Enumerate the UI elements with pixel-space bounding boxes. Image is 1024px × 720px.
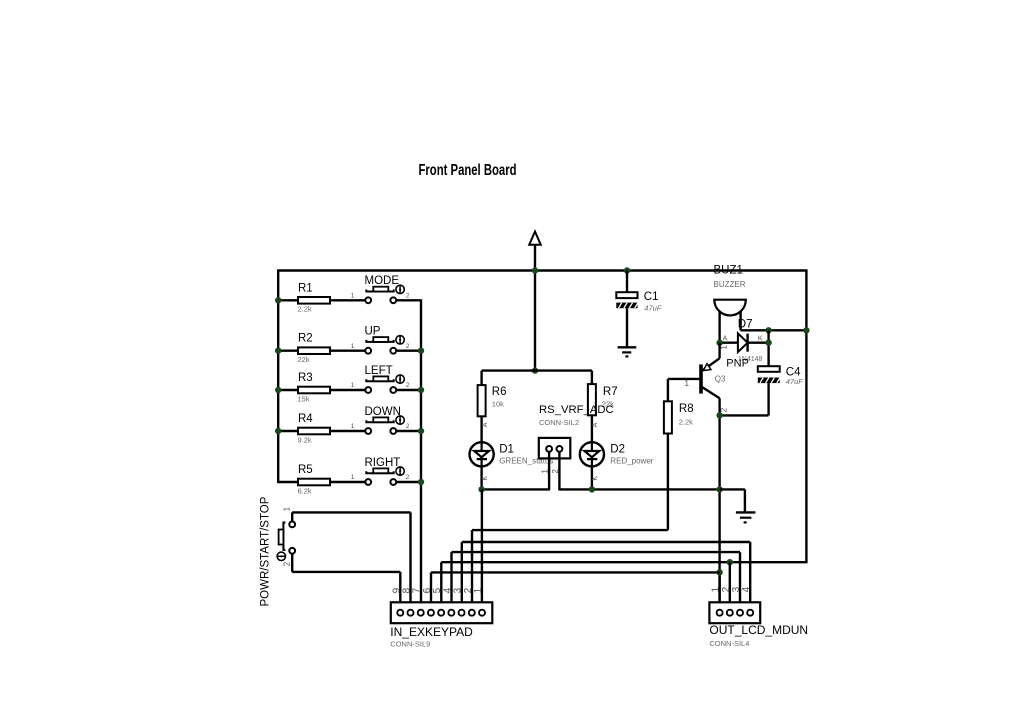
- svg-text:1: 1: [351, 292, 355, 299]
- svg-text:2: 2: [551, 469, 560, 474]
- svg-text:R3: R3: [298, 372, 313, 384]
- svg-text:1: 1: [685, 379, 690, 388]
- svg-text:IN_EXKEYPAD: IN_EXKEYPAD: [390, 625, 473, 639]
- svg-text:2: 2: [282, 561, 291, 566]
- svg-text:RED_power: RED_power: [610, 457, 653, 466]
- svg-text:POWR/START/STOP: POWR/START/STOP: [259, 496, 271, 606]
- svg-text:1: 1: [351, 343, 355, 350]
- svg-text:R2: R2: [298, 333, 313, 345]
- svg-text:6.2k: 6.2k: [298, 486, 312, 495]
- svg-text:K: K: [482, 476, 489, 481]
- svg-text:1: 1: [720, 345, 729, 350]
- svg-text:1: 1: [351, 474, 355, 481]
- svg-text:1: 1: [351, 382, 355, 389]
- svg-text:R5: R5: [298, 464, 313, 476]
- svg-text:C1: C1: [644, 291, 659, 303]
- svg-text:MODE: MODE: [365, 275, 400, 287]
- svg-text:2: 2: [406, 343, 410, 350]
- svg-text:R7: R7: [603, 386, 618, 398]
- svg-text:2.2k: 2.2k: [679, 417, 693, 426]
- svg-text:A: A: [482, 422, 489, 427]
- svg-text:2: 2: [406, 423, 410, 430]
- svg-text:9.2k: 9.2k: [298, 435, 312, 444]
- svg-text:47uF: 47uF: [786, 377, 804, 386]
- svg-text:R6: R6: [492, 386, 507, 398]
- svg-text:DOWN: DOWN: [365, 406, 401, 418]
- svg-text:PNP: PNP: [726, 358, 749, 370]
- svg-text:1: 1: [541, 469, 550, 474]
- svg-text:D2: D2: [610, 444, 625, 456]
- svg-text:D7: D7: [738, 319, 753, 331]
- svg-text:UP: UP: [365, 326, 381, 338]
- svg-text:1: 1: [351, 423, 355, 430]
- svg-text:R4: R4: [298, 413, 313, 425]
- svg-text:K: K: [592, 476, 599, 481]
- svg-text:RIGHT: RIGHT: [365, 457, 401, 469]
- svg-text:15k: 15k: [298, 394, 310, 403]
- svg-text:CONN-SIL2: CONN-SIL2: [539, 418, 579, 427]
- svg-text:RS_VRF_ADC: RS_VRF_ADC: [539, 404, 614, 416]
- svg-text:R8: R8: [679, 403, 694, 415]
- svg-text:2: 2: [406, 474, 410, 481]
- svg-text:Front Panel Board: Front Panel Board: [419, 162, 517, 179]
- svg-text:2.2k: 2.2k: [298, 305, 312, 314]
- svg-text:D1: D1: [499, 444, 514, 456]
- svg-text:2: 2: [406, 382, 410, 389]
- svg-text:K: K: [758, 336, 763, 343]
- svg-text:A: A: [723, 336, 728, 343]
- svg-text:Q3: Q3: [715, 375, 726, 384]
- svg-text:22k: 22k: [298, 355, 310, 364]
- svg-text:LEFT: LEFT: [365, 365, 393, 377]
- svg-text:OUT_LCD_MDUN: OUT_LCD_MDUN: [709, 623, 808, 637]
- svg-text:47uF: 47uF: [644, 304, 662, 313]
- svg-text:R1: R1: [298, 282, 313, 294]
- svg-text:1: 1: [473, 587, 484, 593]
- svg-text:4: 4: [741, 586, 752, 592]
- svg-text:BUZ1: BUZ1: [714, 264, 743, 276]
- svg-text:CONN-SIL9: CONN-SIL9: [390, 639, 430, 648]
- svg-text:BUZZER: BUZZER: [714, 280, 746, 289]
- svg-text:A: A: [592, 422, 599, 427]
- svg-text:CONN-SIL4: CONN-SIL4: [709, 639, 749, 648]
- svg-text:10k: 10k: [492, 400, 504, 409]
- svg-text:2: 2: [406, 292, 410, 299]
- svg-text:1: 1: [283, 506, 292, 511]
